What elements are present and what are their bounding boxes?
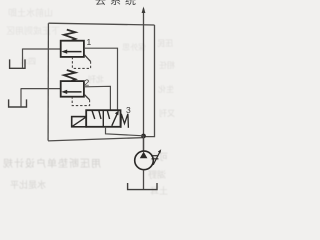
pump P: output triangle [140, 152, 148, 159]
tank T1 (valve1 drain) [10, 59, 25, 68]
svg-text:1: 1 [87, 37, 92, 47]
V3 return spring (M shape) [121, 114, 128, 128]
svg-text:3: 3 [126, 105, 131, 115]
faint bleed-through mid marks [122, 42, 146, 53]
faint bleed-through text bottom lines [2, 155, 101, 170]
wire: valve1 right port to valve3 [84, 48, 118, 110]
V3 left position symbols [92, 111, 95, 120]
V3 right position flow path [107, 111, 109, 120]
svg-text:2: 2 [85, 78, 90, 88]
wire: bottom horizontal of loop [48, 138, 143, 141]
wire: valve3 bottom port to junction [106, 127, 144, 136]
relief valve V1: internal flow arrow [65, 51, 82, 53]
wire: left vertical of loop [47, 23, 49, 140]
svg-text:去系统: 去系统 [95, 0, 140, 7]
relief valve V2: body [61, 81, 84, 97]
pump P: variable arrow [153, 151, 160, 165]
node: junction dot [141, 134, 146, 139]
tank T2 (valve2 drain) [9, 99, 27, 107]
wire: top horizontal of loop [49, 23, 155, 25]
relief valve V1: spring [64, 30, 76, 41]
directional valve V3: body [86, 110, 120, 127]
wire: pump output riser to system [143, 9, 145, 152]
pump P: circle [135, 151, 154, 170]
node: to-system label (clipped at top edge) [95, 0, 140, 7]
faint bleed-through text right column [157, 38, 173, 49]
relief valve V1: pilot dashed loop [84, 55, 90, 62]
wire: valve2 right port to valve3 [84, 86, 111, 110]
faint bleed-through text top-left [8, 6, 53, 19]
tank T3 (suction) [128, 183, 157, 190]
wire: right vertical of loop [144, 25, 155, 137]
wire: tank1 to valve1 left port [23, 48, 61, 50]
relief valve V1: body [61, 41, 84, 57]
relief valve V2: spring [64, 70, 76, 81]
wire: pump to tank [143, 170, 145, 190]
arrowhead: to system [142, 7, 146, 14]
pump P: shaft [151, 156, 158, 159]
wire: junction to pump [143, 136, 145, 151]
relief valve V2: internal flow arrow [65, 91, 82, 93]
wire: tank2 to valve2 left port [21, 88, 61, 90]
relief valve V2: pilot dashed loop [84, 95, 89, 100]
V3 solenoid actuator [72, 117, 87, 127]
